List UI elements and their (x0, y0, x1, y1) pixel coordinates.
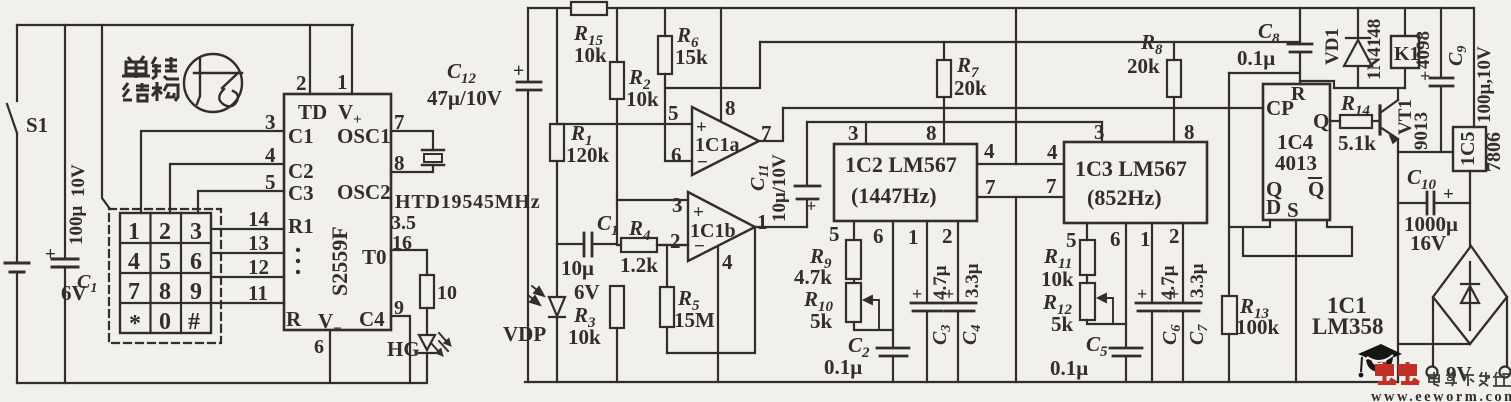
keypad dashed box (109, 209, 221, 343)
svg-text:4098: 4098 (1413, 31, 1434, 69)
svg-text:1: 1 (757, 210, 768, 234)
wire bottom rail right section (525, 381, 1398, 383)
svg-text:4013: 4013 (1275, 151, 1317, 175)
svg-text:TD: TD (298, 100, 327, 124)
svg-text:1C5: 1C5 (1457, 132, 1479, 166)
wire top rail left section (17, 24, 353, 26)
photodiode VDP arrows (528, 286, 544, 305)
svg-text:12: 12 (248, 255, 269, 279)
potentiometer R10 wiper (864, 296, 879, 330)
char 构 (152, 82, 178, 101)
wire IC1a output to bus (759, 108, 783, 141)
svg-text:(852Hz): (852Hz) (1087, 185, 1162, 210)
chinese text 单键结构 hand drawn (122, 56, 179, 101)
svg-text:*: * (129, 311, 141, 337)
svg-text:+: + (45, 244, 56, 265)
svg-text:1N4148: 1N4148 (1364, 19, 1385, 80)
svg-text:6: 6 (314, 336, 324, 358)
svg-text:100μ,10V: 100μ,10V (1474, 46, 1495, 123)
wire pin1 1C3 (1151, 223, 1153, 302)
svg-text:+: + (912, 284, 922, 304)
wire keypad col3 to pin5 (198, 191, 284, 213)
resistor R2 (616, 8, 618, 62)
svg-text:C2: C2 (288, 159, 314, 183)
svg-text:LM358: LM358 (1312, 314, 1384, 339)
svg-text:3: 3 (672, 193, 683, 217)
wire pin4 IC1b to ground (717, 246, 719, 382)
svg-text:C4: C4 (959, 325, 984, 345)
svg-text:6: 6 (1110, 227, 1121, 251)
svg-text:120k: 120k (566, 143, 610, 167)
svg-text:6: 6 (873, 224, 884, 248)
svg-text:9: 9 (394, 297, 404, 319)
wire bridge bottom to ground line (1398, 343, 1470, 345)
wire pin8 IC1a to rail (720, 8, 722, 121)
watermark text dianzi xiazaizhan (1429, 372, 1511, 386)
svg-text:CP: CP (1266, 96, 1294, 120)
svg-text:5k: 5k (810, 309, 833, 333)
capacitor C12 plates (517, 82, 541, 90)
svg-text:+: + (1443, 184, 1454, 205)
wire pin2 IC1b (657, 244, 688, 246)
watermark graduation cap (1358, 344, 1402, 363)
svg-text:+: + (513, 60, 524, 82)
svg-text:C1: C1 (77, 271, 97, 296)
bridge rectifier diamond (1433, 246, 1507, 344)
wire pin4 net to rail (1015, 8, 1017, 164)
svg-text:3.3μ: 3.3μ (1187, 263, 1208, 298)
wire keypad col2 to pin4 (170, 164, 284, 213)
LED HG (419, 335, 435, 383)
svg-text:R: R (286, 307, 302, 331)
svg-text:5k: 5k (1051, 312, 1074, 336)
svg-text:3.3μ: 3.3μ (962, 263, 983, 298)
svg-text:10k: 10k (574, 43, 607, 67)
resistor R7 (943, 42, 945, 60)
svg-text:VDP: VDP (503, 322, 546, 346)
wire pin7 net to ground (1015, 197, 1017, 382)
svg-text:+: + (806, 196, 816, 216)
capacitor C3 (911, 303, 944, 311)
battery 6V (5, 263, 29, 272)
svg-text:8: 8 (159, 279, 171, 305)
svg-text:1C1a: 1C1a (695, 134, 739, 156)
wire K1 to rail (1404, 8, 1406, 36)
svg-text:7: 7 (128, 279, 140, 305)
svg-text:16V: 16V (1410, 231, 1446, 255)
svg-text:1: 1 (1140, 227, 1151, 251)
svg-text:+: + (1137, 284, 1147, 304)
svg-text:8: 8 (725, 96, 736, 120)
svg-text:5: 5 (829, 222, 840, 246)
svg-text:0.1μ: 0.1μ (824, 355, 862, 379)
IC U1 S2559F box (284, 94, 391, 330)
wire pin2 to rail (309, 25, 311, 94)
svg-text:C9: C9 (1445, 46, 1470, 66)
svg-text:C8: C8 (1258, 19, 1280, 47)
svg-text:1: 1 (337, 70, 348, 94)
char 单 (122, 56, 150, 78)
svg-text:3: 3 (190, 219, 202, 245)
svg-text:OSC1: OSC1 (337, 124, 391, 148)
svg-text:D: D (1266, 195, 1281, 219)
svg-text:C10: C10 (1407, 165, 1437, 193)
bridge inner diode (1461, 262, 1479, 330)
svg-text:www.eeworm.com: www.eeworm.com (1371, 389, 1511, 402)
svg-text:C5: C5 (1086, 332, 1108, 360)
capacitor C1 100u wire (64, 25, 66, 383)
svg-text:10k: 10k (1041, 267, 1074, 291)
svg-text:C12: C12 (447, 59, 477, 87)
svg-text:2: 2 (296, 71, 307, 95)
photodiode VDP (549, 244, 565, 382)
svg-text:HG: HG (387, 337, 420, 361)
resistor R9 (853, 221, 855, 240)
svg-text:1C1b: 1C1b (690, 220, 736, 242)
wire keypad row1 to pin14 (211, 228, 284, 230)
capacitor C12 wire (527, 8, 529, 382)
phone icon sketch (194, 59, 242, 104)
svg-text:10μ: 10μ (561, 256, 594, 280)
svg-text:6: 6 (671, 143, 682, 167)
switch S1 (7, 104, 17, 263)
svg-text:100μ: 100μ (66, 206, 87, 246)
LED HG arrows (439, 333, 448, 351)
svg-text:C1: C1 (288, 124, 314, 148)
watermark char chong1 red (1377, 362, 1396, 383)
IC 1C2 LM567 box (834, 144, 977, 221)
wire IC1b output (755, 226, 807, 228)
wire pin2 1C3 (1182, 223, 1184, 302)
svg-text:(1447Hz): (1447Hz) (851, 183, 937, 208)
wire keypad row4 to pin11 (211, 302, 284, 304)
wire Q and Qbar loop below 4013 (1229, 220, 1352, 256)
svg-text:9: 9 (190, 279, 202, 305)
svg-text:VD1: VD1 (1322, 28, 1343, 65)
svg-text:0.1μ: 0.1μ (1050, 356, 1088, 380)
svg-text:15M: 15M (674, 308, 715, 332)
svg-text:0: 0 (159, 309, 171, 335)
capacitor C4 (943, 303, 976, 311)
svg-text:100k: 100k (1236, 315, 1280, 339)
svg-text:5: 5 (1066, 228, 1077, 252)
svg-text:3.5: 3.5 (391, 212, 416, 234)
svg-text:2: 2 (670, 229, 681, 253)
svg-text:C3: C3 (929, 325, 954, 345)
svg-text:2: 2 (942, 224, 953, 248)
wire rail to regulator top (1473, 8, 1475, 127)
svg-text:8: 8 (394, 151, 405, 175)
wire R node to R13 (1229, 72, 1300, 74)
svg-text:47μ/10V: 47μ/10V (427, 86, 502, 110)
resistor R15 body (571, 2, 607, 15)
svg-text:13: 13 (248, 231, 269, 255)
potentiometer R12 wiper (1098, 294, 1113, 324)
AC terminal circle left (1427, 367, 1438, 378)
transistor VT1 emitter arrow (1390, 136, 1398, 143)
svg-text:4: 4 (265, 143, 276, 167)
svg-text:C3: C3 (288, 181, 314, 205)
svg-text:V−: V− (318, 309, 342, 337)
capacitor C2 (877, 348, 909, 356)
wire feedback IC1b (667, 227, 755, 353)
svg-text:1C2 LM567: 1C2 LM567 (845, 152, 957, 177)
char 结 (123, 83, 149, 101)
wire pin3 1C3 (1101, 122, 1103, 142)
svg-text:5: 5 (265, 170, 276, 194)
watermark char chong2 red (1400, 362, 1419, 383)
wire keypad row3 to pin12 (211, 276, 284, 278)
svg-text:C1: C1 (597, 211, 619, 239)
svg-text:9013: 9013 (1411, 112, 1432, 150)
svg-text:R1: R1 (288, 214, 314, 238)
wire top rail right section (528, 7, 1474, 9)
wire bottom rail left section (17, 382, 426, 384)
wire pin4 1C2 to 1C3 (977, 163, 1064, 165)
capacitor C9 (1440, 8, 1442, 152)
svg-text:4: 4 (722, 250, 733, 274)
wire second rail y42 (760, 41, 1300, 43)
svg-text:8: 8 (1184, 120, 1195, 144)
svg-text:1C3 LM567: 1C3 LM567 (1075, 156, 1187, 181)
wire K1 bottom (1404, 68, 1406, 88)
svg-text:S2559F: S2559F (327, 226, 352, 296)
svg-text:+: + (944, 284, 954, 304)
svg-text:1: 1 (908, 225, 919, 249)
svg-text:11: 11 (248, 281, 268, 305)
svg-text:8: 8 (926, 121, 937, 145)
svg-text:2: 2 (159, 219, 171, 245)
svg-text:7: 7 (761, 121, 772, 145)
svg-text:R4: R4 (628, 216, 651, 244)
IC 1C4 4013 box (1263, 84, 1330, 220)
svg-text:+: + (1169, 284, 1179, 304)
svg-text:#: # (188, 309, 200, 335)
svg-text:7806: 7806 (1483, 132, 1505, 172)
wire to regulator input (1398, 151, 1453, 153)
resistor R11 (1086, 223, 1088, 240)
capacitor C10 (1398, 202, 1470, 204)
svg-text:OSC2: OSC2 (337, 180, 391, 204)
capacitor C6 (1136, 303, 1169, 311)
wire pin16 TO (391, 250, 427, 275)
svg-text:4: 4 (1047, 140, 1058, 164)
wire emitter down (1397, 139, 1399, 382)
wire pin3 IC1b (617, 199, 688, 201)
svg-text:10V: 10V (68, 164, 89, 197)
op-amp IC1b triangle (688, 192, 755, 261)
resistor R1 (556, 8, 558, 124)
wire keypad feed (102, 25, 110, 209)
wire pin6 IC1a feedback (665, 88, 692, 161)
wire pin2 1C2 (957, 221, 959, 302)
resistor R4 body (617, 244, 688, 246)
resistor R13 line (1228, 73, 1230, 296)
resistor R5 (666, 245, 668, 287)
capacitor C11 (806, 122, 808, 227)
capacitor C5 (1110, 348, 1142, 356)
wire pin6 Vminus (329, 330, 331, 383)
svg-text:5.1k: 5.1k (1338, 131, 1376, 155)
svg-text:16: 16 (392, 232, 412, 254)
svg-text:7: 7 (394, 110, 405, 134)
svg-text:1: 1 (128, 219, 140, 245)
svg-text:Q: Q (1313, 109, 1329, 133)
svg-text:4: 4 (984, 139, 995, 163)
wire pin1 to rail (351, 25, 353, 94)
TEXT left section (26, 70, 540, 361)
svg-text:3: 3 (1094, 120, 1105, 144)
svg-text:15k: 15k (675, 45, 708, 69)
capacitor C7 (1168, 303, 1201, 311)
MIDDLE SECTION wires (517, 2, 1474, 382)
IC 1C3 LM567 box (1064, 142, 1207, 223)
AC terminal circle right (1500, 367, 1511, 378)
svg-text:HTD19545MHz: HTD19545MHz (395, 191, 540, 213)
wire pin1 1C2 (926, 221, 928, 302)
svg-text:10k: 10k (568, 325, 601, 349)
wire R node to relay node (1300, 81, 1405, 88)
wire pin9 C4 (391, 316, 410, 383)
svg-text:10μ/10V: 10μ/10V (769, 154, 790, 222)
wire AC right terminal (1506, 297, 1508, 366)
potentiometer R12 (1080, 283, 1095, 320)
svg-text:S: S (1287, 198, 1299, 222)
svg-text:4: 4 (128, 249, 140, 275)
resistor R6 (664, 8, 666, 36)
svg-text:20k: 20k (1127, 54, 1160, 78)
wire pin6 1C3 (1125, 223, 1127, 347)
svg-text:C4: C4 (359, 307, 385, 331)
resistor R3 (610, 286, 624, 328)
wire pin8 1C3 (1173, 97, 1175, 142)
svg-text:R14: R14 (1340, 91, 1371, 119)
svg-text:+: + (1420, 66, 1430, 86)
svg-text:Q: Q (1308, 177, 1324, 201)
svg-text:3: 3 (265, 110, 276, 134)
potentiometer R10 (846, 283, 861, 322)
wire tone bus y122 (807, 121, 1102, 123)
svg-text:5: 5 (159, 249, 171, 275)
phone icon circle (184, 54, 242, 112)
svg-text:14: 14 (248, 207, 270, 231)
wire pin8 1C2 (943, 97, 945, 144)
wire regulator bottom (1469, 171, 1471, 246)
IC dots (296, 248, 300, 252)
wire left branch upper (16, 25, 18, 101)
wire keypad row2 to pin13 (211, 252, 284, 254)
svg-text:20k: 20k (954, 76, 987, 100)
wire D S pin to ground (1295, 220, 1297, 382)
wire pin7 OSC1 (391, 131, 433, 150)
MIDDLE SECTION text (427, 21, 1384, 380)
svg-text:C7: C7 (1186, 324, 1211, 345)
svg-text:S1: S1 (26, 113, 48, 137)
capacitor C1 10u coupling (557, 243, 617, 245)
RIGHT SECTION wires (1229, 8, 1511, 382)
svg-text:R: R (1291, 83, 1306, 105)
keypad grid (120, 213, 211, 333)
wire AC left terminal (1432, 297, 1434, 366)
diode VD1 (1344, 8, 1372, 88)
svg-text:3: 3 (848, 121, 859, 145)
svg-text:0.1μ: 0.1μ (1237, 46, 1275, 70)
svg-text:T0: T0 (362, 245, 387, 269)
crystal HTD 3.579545MHz (422, 150, 444, 165)
wire keypad col1 to pin3 (141, 131, 284, 213)
capacitor C8 (1299, 8, 1301, 84)
transistor VT1 (1378, 106, 1381, 134)
svg-text:10k: 10k (626, 87, 659, 111)
svg-text:4.7k: 4.7k (794, 265, 832, 289)
svg-text:6V: 6V (574, 280, 600, 304)
svg-text:10: 10 (437, 282, 457, 304)
regulator 1C5 box (1453, 127, 1486, 171)
resistor R14 (1330, 120, 1380, 122)
wire pin5 IC1a (557, 123, 692, 125)
relay K1 box (1391, 36, 1419, 68)
svg-text:7: 7 (985, 175, 996, 199)
resistor R8 (1173, 42, 1175, 60)
wire pin6 1C2 (892, 221, 894, 347)
wire pin3 1C2 (865, 122, 867, 144)
char 键 (152, 57, 179, 79)
wire pin8 OSC2 (391, 165, 433, 172)
wire pin7 1C2 to 1C3 (977, 196, 1064, 198)
svg-text:5: 5 (668, 101, 679, 125)
svg-text:1.2k: 1.2k (620, 253, 658, 277)
wire output bus y108 (783, 107, 1263, 109)
svg-text:6: 6 (190, 249, 202, 275)
RIGHT SECTION text (1237, 19, 1505, 386)
resistor 10 body (420, 275, 434, 308)
svg-text:C6: C6 (1159, 325, 1184, 345)
op-amp IC1a triangle (692, 107, 759, 175)
WATERMARK (1358, 344, 1511, 402)
capacitor C1 100u plates (52, 259, 78, 267)
svg-text:7: 7 (1046, 174, 1057, 198)
wire resistor to LED (426, 308, 428, 334)
svg-text:2: 2 (1169, 224, 1180, 248)
